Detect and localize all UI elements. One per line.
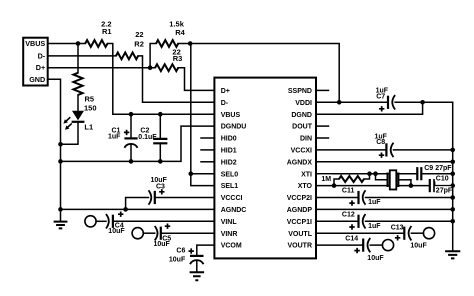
capacitor C10 <box>429 179 431 192</box>
svg-text:1M: 1M <box>321 176 331 183</box>
node D+/R3/R4 junction <box>148 65 153 70</box>
input jack L <box>85 216 96 227</box>
svg-text:27pF: 27pF <box>436 187 453 194</box>
C5 plus <box>165 224 170 229</box>
capacitor C6 <box>190 255 204 257</box>
svg-text:C6: C6 <box>176 247 185 254</box>
svg-text:DIN: DIN <box>300 136 312 143</box>
svg-text:VCCP1I: VCCP1I <box>287 219 312 226</box>
svg-text:R1: R1 <box>102 27 112 36</box>
wire R2 to D- pin <box>138 56 214 102</box>
svg-text:10uF: 10uF <box>367 255 384 262</box>
resistor R1 <box>85 40 107 47</box>
svg-text:C12: C12 <box>342 212 355 219</box>
svg-text:VCOM: VCOM <box>221 243 242 250</box>
node R4 output junction <box>188 41 193 46</box>
node C7 DGND junction <box>420 100 425 105</box>
svg-text:HID1: HID1 <box>221 148 237 155</box>
node C2 bottom <box>158 159 163 164</box>
wire D+ from connector <box>48 67 155 69</box>
svg-text:22: 22 <box>135 30 143 39</box>
svg-text:AGNDC: AGNDC <box>221 207 247 214</box>
wire HID1 stub <box>201 149 214 151</box>
svg-text:10uF: 10uF <box>154 241 171 248</box>
svg-text:XTI: XTI <box>301 171 312 178</box>
svg-text:XTO: XTO <box>298 183 313 190</box>
svg-text:C10: C10 <box>436 176 449 183</box>
svg-text:AGNDP: AGNDP <box>287 207 313 214</box>
wire GND from connector <box>48 79 61 221</box>
svg-text:VDDI: VDDI <box>295 100 312 107</box>
svg-text:SEL0: SEL0 <box>221 171 239 178</box>
label C10 value 27pF <box>435 186 452 193</box>
capacitor C2 <box>159 114 161 139</box>
svg-text:D+: D+ <box>221 88 230 95</box>
node AGNDP rail <box>450 207 455 212</box>
svg-text:VINL: VINL <box>221 219 238 226</box>
capacitor C14 <box>362 239 364 252</box>
svg-text:C8: C8 <box>376 139 385 146</box>
wire ground to DGNDU <box>61 126 215 161</box>
C13 plus <box>395 235 400 240</box>
svg-text:C13: C13 <box>391 225 404 232</box>
C6 plus <box>189 248 194 253</box>
node VBUS/R5 junction <box>76 41 81 46</box>
label C10 <box>435 175 450 182</box>
svg-text:D-: D- <box>221 100 229 107</box>
svg-text:R2: R2 <box>134 39 144 48</box>
node C2 top <box>158 112 163 117</box>
USB connector J1 <box>23 38 48 86</box>
C14 plus <box>354 248 359 253</box>
ground left <box>54 222 68 229</box>
svg-text:GND: GND <box>29 75 45 84</box>
wire SSPND stub <box>316 89 329 91</box>
node VDDI junction <box>337 100 342 105</box>
capacitor C11 <box>357 191 359 204</box>
svg-text:HID2: HID2 <box>221 159 237 166</box>
svg-text:10uF: 10uF <box>169 256 186 263</box>
svg-text:1uF: 1uF <box>368 223 381 230</box>
op-amp U1 PCM2702 DAC IC <box>214 78 316 259</box>
svg-text:R4: R4 <box>175 28 185 37</box>
svg-text:150: 150 <box>84 104 97 113</box>
svg-text:VINR: VINR <box>221 231 238 238</box>
C3 plus <box>159 189 164 194</box>
wire D- from connector <box>48 55 116 57</box>
wire AGNDX <box>316 161 453 163</box>
wire AGNDC <box>61 208 215 210</box>
wire VOUTL to C13 <box>316 232 404 234</box>
wire AGNDP <box>316 208 453 210</box>
C4 plus <box>118 212 123 217</box>
svg-text:R3: R3 <box>173 54 183 63</box>
capacitor C5 <box>143 232 154 234</box>
wire R4 to VDDI <box>178 44 339 103</box>
ground C6 <box>190 272 205 280</box>
capacitor C4 <box>96 220 106 222</box>
resistor 1M <box>334 179 339 186</box>
svg-text:C9: C9 <box>424 165 433 172</box>
svg-text:VCCCI: VCCCI <box>221 195 243 202</box>
svg-text:DGNDU: DGNDU <box>221 124 247 131</box>
svg-text:AGNDX: AGNDX <box>287 159 313 166</box>
svg-text:0.1uF: 0.1uF <box>138 134 157 141</box>
svg-text:D-: D- <box>38 51 46 60</box>
wire HID0 stub <box>201 137 214 139</box>
svg-text:VOUTR: VOUTR <box>288 243 313 250</box>
node C11 rail <box>450 195 455 200</box>
svg-text:C11: C11 <box>342 188 355 195</box>
svg-text:C3: C3 <box>156 183 165 190</box>
wire VOUTR to C14 <box>316 244 363 246</box>
wire VBUS from connector <box>48 43 85 45</box>
svg-text:HID0: HID0 <box>221 136 237 143</box>
svg-text:D+: D+ <box>36 63 45 72</box>
capacitor C13 <box>403 227 405 240</box>
wire VCCP1I to C12 <box>316 220 359 222</box>
svg-text:DOUT: DOUT <box>292 124 313 131</box>
resistor R2 <box>116 53 138 60</box>
svg-text:L1: L1 <box>84 122 93 131</box>
wire SEL0 branch <box>191 173 215 175</box>
resistor R3 <box>155 64 178 71</box>
wire VCCXI to C8 <box>316 149 386 151</box>
node C1 bottom <box>129 159 134 164</box>
wire DIN stub <box>316 137 329 139</box>
node XTO 1M junction <box>332 183 337 188</box>
node C12 rail <box>450 219 455 224</box>
label 1M <box>319 174 333 182</box>
LED L1 <box>72 111 84 121</box>
svg-text:SSPND: SSPND <box>288 88 312 95</box>
node C10 rail <box>450 183 455 188</box>
node C9 rail <box>450 171 455 176</box>
node SEL0 junction <box>189 171 194 176</box>
wire R1 to VBUS pin <box>108 44 215 115</box>
output jack R <box>382 240 393 251</box>
node AGNDC ground <box>58 207 63 212</box>
resistor R5 <box>73 73 82 95</box>
svg-text:VBUS: VBUS <box>25 39 45 48</box>
svg-text:SEL1: SEL1 <box>221 183 239 190</box>
svg-text:1uF: 1uF <box>108 134 121 141</box>
C12 plus <box>349 224 354 229</box>
svg-text:VCCXI: VCCXI <box>291 148 312 155</box>
node C1 top <box>129 112 134 117</box>
capacitor C3 <box>155 197 215 199</box>
svg-text:1uF: 1uF <box>368 199 381 206</box>
capacitor C12 <box>357 215 359 228</box>
svg-text:10uF: 10uF <box>108 228 125 235</box>
C8 plus <box>379 153 384 158</box>
wire SEL pull-up <box>191 44 215 186</box>
C11 plus <box>349 200 354 205</box>
wire R4 left lead <box>150 44 156 68</box>
capacitor C8 <box>385 143 387 156</box>
wire right ground rail <box>452 102 454 251</box>
svg-text:27pF: 27pF <box>435 165 452 172</box>
output jack L <box>423 228 434 239</box>
svg-text:VBUS: VBUS <box>221 112 241 119</box>
node C3 ground junction <box>123 207 128 212</box>
node XTO crystal junction <box>409 183 414 188</box>
svg-text:VCCP2I: VCCP2I <box>287 195 312 202</box>
resistor R4 <box>156 40 178 47</box>
wire LED to ground rail <box>61 122 79 144</box>
node AGNDX rail <box>450 160 455 165</box>
C7 plus <box>379 106 384 111</box>
wire VCCP2I to C11 <box>316 197 359 199</box>
svg-text:DGND: DGND <box>291 112 312 119</box>
svg-text:VOUTL: VOUTL <box>288 231 312 238</box>
node LED return <box>58 142 63 147</box>
wire XTO <box>316 185 430 187</box>
wire R5 to LED <box>77 95 79 112</box>
node C1C2 ground <box>58 159 63 164</box>
wire XTI <box>316 173 417 175</box>
C1 plus <box>124 130 129 135</box>
wire R3 to D+ pin <box>178 68 214 91</box>
crystal X1 <box>376 174 388 180</box>
node XTI 1M junction <box>367 171 372 176</box>
node C8 rail <box>450 148 455 153</box>
wire HID2 stub <box>201 161 214 163</box>
input jack R <box>132 228 143 239</box>
svg-text:R5: R5 <box>85 95 95 104</box>
capacitor C1 <box>130 114 132 138</box>
svg-text:10uF: 10uF <box>410 242 427 249</box>
wire VBUS to R5 <box>77 44 79 73</box>
wire DGND <box>316 102 423 114</box>
wire DOUT stub <box>316 125 329 127</box>
node XTI crystal junction <box>373 171 378 176</box>
svg-text:C14: C14 <box>345 235 358 242</box>
capacitor C7 <box>387 96 389 109</box>
wire VCOM <box>197 245 215 256</box>
svg-text:C7: C7 <box>376 94 385 101</box>
wire VDDI to C7 <box>316 101 388 103</box>
capacitor C9 <box>416 167 418 180</box>
ground right <box>445 251 460 258</box>
